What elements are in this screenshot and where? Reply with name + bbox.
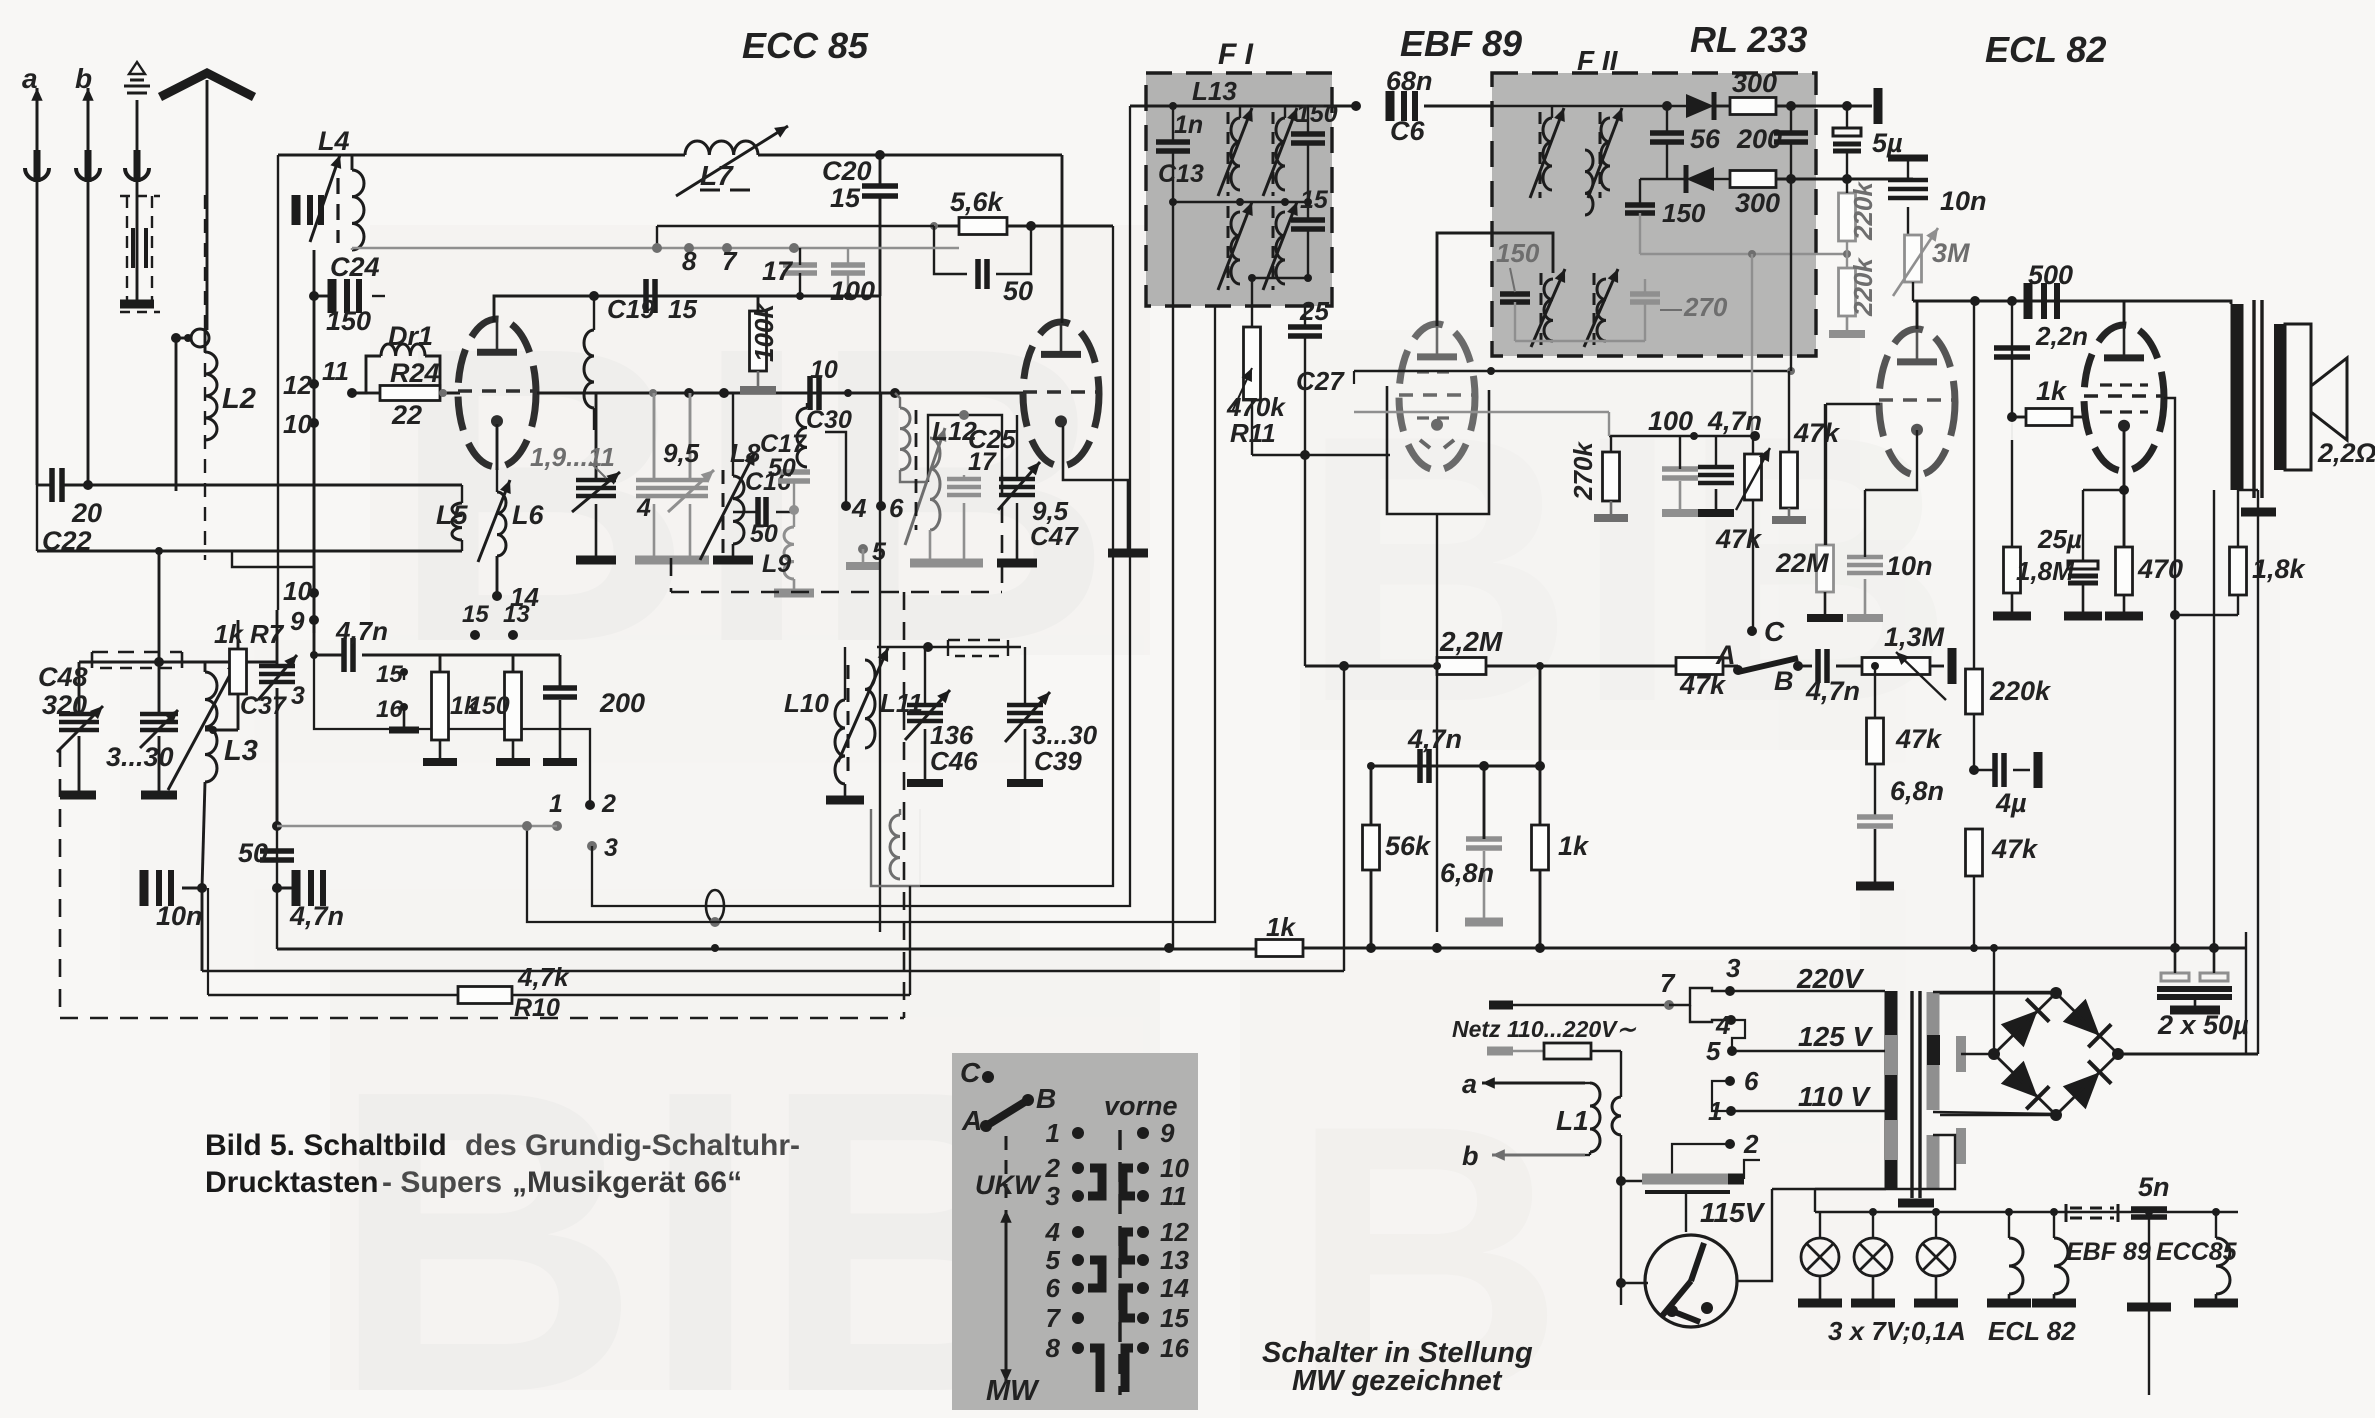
label pin5 bbox=[872, 538, 887, 566]
svg-text:L9: L9 bbox=[762, 550, 791, 578]
transformer primary winding bbox=[1885, 991, 1898, 1189]
trimmer capacitor C39 bbox=[1005, 647, 1050, 783]
wire secondary top to bridge bbox=[1933, 991, 2056, 993]
panel dashed link bbox=[1005, 1136, 1008, 1206]
label 1k pin9 bbox=[450, 692, 479, 720]
node ecc bus bbox=[2212, 1208, 2220, 1216]
pentode anode bbox=[2123, 301, 2126, 325]
label 47k right bbox=[1991, 834, 2039, 864]
label 10 C30 bbox=[810, 356, 838, 384]
node 1847 y179 bbox=[1842, 174, 1852, 184]
label pin8 bbox=[682, 246, 697, 276]
svg-text:a: a bbox=[1462, 1069, 1477, 1099]
resistor 47k af bbox=[1676, 658, 1738, 675]
pin 14 node bbox=[492, 591, 502, 601]
panel pin 12 bbox=[1137, 1217, 1189, 1247]
vertical 1791 inside FII bbox=[1790, 179, 1792, 371]
resistor 1k fb bbox=[1532, 666, 1549, 948]
gray wire y412 bbox=[1354, 411, 1609, 413]
resistor 1k decoupling bbox=[1256, 940, 1303, 957]
svg-text:10: 10 bbox=[283, 409, 312, 439]
mains riser lower bbox=[1620, 1135, 1622, 1305]
label C25 bbox=[968, 424, 1016, 454]
svg-text:ECL 82: ECL 82 bbox=[1985, 29, 2106, 70]
af wire y666 bbox=[1305, 665, 1437, 668]
svg-text:vorne: vorne bbox=[1104, 1091, 1178, 1121]
label 5µ bbox=[1872, 128, 1903, 158]
label L3 bbox=[224, 735, 258, 767]
node bus 1994 bbox=[1990, 944, 1998, 952]
node grid 689 bbox=[684, 388, 694, 398]
node 1305 y455 bbox=[1300, 450, 1310, 460]
svg-text:2: 2 bbox=[1045, 1153, 1061, 1183]
capacitor 25 C27 bbox=[1288, 306, 1322, 666]
line 150 pointer bbox=[1510, 268, 1515, 292]
bridge left node bbox=[1988, 1048, 2000, 1060]
svg-text:L8: L8 bbox=[730, 438, 761, 468]
wire tuner top node bbox=[79, 661, 277, 664]
resistor 1k pin9 bbox=[423, 655, 457, 762]
svg-text:F I: F I bbox=[1218, 38, 1254, 71]
node L12 box top bbox=[959, 410, 969, 420]
label 56 bbox=[1690, 124, 1721, 154]
label pin 3 bbox=[604, 834, 618, 862]
trimmer capacitor C37 bbox=[258, 610, 297, 824]
svg-text:56k: 56k bbox=[1385, 831, 1432, 861]
svg-text:220k: 220k bbox=[1848, 181, 1878, 241]
label R11 bbox=[1230, 418, 1276, 448]
svg-text:9: 9 bbox=[290, 606, 305, 636]
label 220k lower bbox=[1848, 257, 1878, 317]
svg-text:5: 5 bbox=[1706, 1036, 1721, 1066]
svg-text:5µ: 5µ bbox=[1872, 128, 1903, 158]
heater ECL82 bbox=[1987, 1212, 2031, 1303]
panel contact 12-13 bbox=[1123, 1232, 1135, 1260]
label C39 bbox=[1034, 746, 1082, 776]
label 2,2ohm bbox=[2317, 438, 2375, 468]
capacitor 15 FI bbox=[1291, 202, 1325, 278]
node bus 1437 bbox=[1432, 943, 1442, 953]
svg-text:15: 15 bbox=[462, 601, 489, 628]
pin6 node bbox=[1725, 1076, 1735, 1086]
heater EBF89 bbox=[2032, 1212, 2076, 1303]
terminal b socket hook bbox=[76, 168, 100, 485]
svg-text:6,8n: 6,8n bbox=[1440, 858, 1494, 888]
label 100 af bbox=[1648, 406, 1693, 436]
heater ECC85 bbox=[2194, 1212, 2238, 1303]
wire pin4 up bbox=[825, 432, 846, 506]
svg-text:25µ: 25µ bbox=[2037, 524, 2082, 554]
svg-text:C48: C48 bbox=[38, 662, 88, 692]
capacitor 200 bbox=[513, 655, 577, 762]
svg-text:C20: C20 bbox=[822, 156, 872, 186]
tube label ECL82 bbox=[1985, 29, 2106, 70]
resistor 1k grid bbox=[2012, 409, 2086, 426]
pin 7 node bbox=[722, 243, 732, 253]
af riser from bus B bbox=[1343, 666, 1345, 971]
label 4,7n tone bbox=[1805, 676, 1860, 706]
svg-text:9,5: 9,5 bbox=[663, 438, 700, 468]
screen drop bbox=[2174, 615, 2176, 973]
label C13 bbox=[1158, 160, 1204, 188]
svg-text:50: 50 bbox=[750, 520, 778, 548]
panel lever bbox=[980, 1094, 1034, 1132]
wire y371 left end bbox=[1353, 371, 1355, 384]
label 3 C37 bbox=[291, 682, 305, 710]
label C17 bbox=[760, 430, 807, 458]
resistor 300 upper bbox=[1730, 98, 1872, 115]
grid wire triode1 to triode2 bbox=[537, 392, 1024, 395]
capacitor 200 bbox=[1774, 106, 1808, 179]
FI mid node d bbox=[1304, 198, 1312, 206]
terminal bar right upper bbox=[1874, 88, 1883, 124]
capacitor C19 bbox=[646, 279, 655, 313]
FII lower gray bottom bbox=[1515, 340, 1645, 342]
label 470 bbox=[2137, 554, 2183, 584]
svg-text:13: 13 bbox=[503, 601, 530, 628]
label 47k screen bbox=[1793, 418, 1841, 448]
wire clock right bbox=[1736, 1189, 1772, 1281]
capacitor 5n heater bbox=[2127, 1209, 2171, 1395]
svg-text:3...30: 3...30 bbox=[106, 742, 174, 772]
earth socket hook bbox=[125, 168, 149, 302]
trimmer capacitor C46 bbox=[905, 647, 950, 783]
block label F II bbox=[1577, 45, 1619, 76]
speaker box bbox=[2285, 324, 2347, 470]
UKW tuner feed vertical bbox=[277, 155, 279, 610]
svg-text:MW: MW bbox=[986, 1375, 1040, 1407]
label 56k bbox=[1385, 831, 1432, 861]
svg-text:C30: C30 bbox=[806, 406, 852, 434]
svg-text:150: 150 bbox=[1296, 100, 1338, 128]
svg-text:6: 6 bbox=[889, 493, 904, 523]
resistor 100k bbox=[740, 296, 776, 390]
label C6 bbox=[1390, 116, 1425, 146]
svg-text:2,2n: 2,2n bbox=[2035, 321, 2088, 351]
FII avc gray wire bbox=[1640, 253, 1847, 255]
bridge diode SE bbox=[2063, 1061, 2111, 1109]
bracket 7-4 bbox=[1690, 1005, 1730, 1022]
caption line 1 bbox=[205, 1129, 800, 1162]
pin 4 node bbox=[841, 501, 851, 511]
svg-text:b: b bbox=[75, 63, 92, 94]
label 2x50µ bbox=[2157, 1010, 2249, 1040]
label pin 1 bbox=[549, 790, 563, 818]
transformer core bbox=[1912, 991, 1920, 1198]
svg-text:16: 16 bbox=[1160, 1333, 1189, 1363]
capacitor 100 af bbox=[1662, 436, 1698, 513]
pin5 ground bbox=[846, 549, 880, 566]
label 2,2M bbox=[1439, 626, 1503, 657]
label 17 C25 bbox=[968, 448, 997, 476]
label 100k bbox=[749, 303, 779, 362]
coupling coil right of C30 bbox=[895, 393, 928, 482]
pilot lamp 1 bbox=[1798, 1212, 1842, 1303]
svg-text:11: 11 bbox=[1160, 1181, 1187, 1211]
capacitor 6,8n tone bbox=[1856, 817, 1894, 886]
label 150 pin9 bbox=[468, 692, 510, 720]
pilot lamp 3 bbox=[1914, 1212, 1958, 1303]
FI mid node c bbox=[1281, 198, 1289, 206]
label a terminal bbox=[22, 63, 38, 94]
resistor 5,6k bbox=[930, 218, 1113, 235]
capacitor 50 bypass bbox=[934, 226, 1031, 289]
label C47 bbox=[1030, 521, 1079, 551]
svg-text:L3: L3 bbox=[224, 735, 258, 767]
variable capacitor C48 bbox=[57, 662, 103, 793]
svg-text:100: 100 bbox=[830, 276, 875, 306]
wire 5,6k node down bbox=[656, 226, 658, 248]
label 4,7n fb bbox=[1407, 724, 1462, 754]
FI mid node b bbox=[1236, 198, 1244, 206]
label R24 bbox=[390, 358, 440, 388]
wire y106 into FI bbox=[1130, 105, 1356, 108]
label 220V bbox=[1796, 963, 1865, 994]
svg-text:1k: 1k bbox=[1558, 831, 1590, 861]
label 4,7n lower left bbox=[289, 901, 344, 931]
label 1,8k bbox=[2252, 554, 2307, 584]
svg-text:300: 300 bbox=[1735, 188, 1780, 218]
svg-text:6,8n: 6,8n bbox=[1890, 776, 1944, 806]
gnd bus y615 bbox=[2175, 614, 2238, 616]
panel pin 16 bbox=[1137, 1333, 1189, 1363]
osc feedback wire 1 bbox=[920, 226, 1113, 886]
FI bottom wire bbox=[1252, 277, 1308, 279]
wire 1609 up bbox=[1608, 412, 1610, 436]
wire heater link bbox=[1772, 1188, 1886, 1190]
resistor 47k tone bbox=[1867, 718, 1884, 817]
label a mains bbox=[1462, 1069, 1477, 1099]
capacitor C20 bbox=[862, 155, 898, 196]
svg-text:2 x 50µ: 2 x 50µ bbox=[2157, 1010, 2249, 1040]
EBF89 anode lead bbox=[1437, 233, 1553, 326]
IF filter block F I shaded panel bbox=[1146, 73, 1332, 306]
label 16 bbox=[376, 696, 403, 723]
node bus 1169 bbox=[1164, 943, 1174, 953]
wire B to cap bbox=[1798, 665, 1812, 668]
capacitor 4,7n tone bbox=[1818, 649, 1862, 683]
bridge diode NW bbox=[2001, 999, 2049, 1047]
label C16 bbox=[745, 468, 792, 496]
resistor 300 lower bbox=[1730, 171, 1913, 188]
label 9,5 C47 bbox=[1032, 496, 1069, 526]
trimmer bracket dashed bbox=[92, 652, 182, 668]
block label F I bbox=[1218, 38, 1254, 71]
svg-text:12: 12 bbox=[283, 370, 312, 400]
node pin7 mains bbox=[1664, 1000, 1674, 1010]
wire secondary bottom to bridge bbox=[1933, 1112, 2056, 1114]
svg-text:10n: 10n bbox=[1940, 186, 1987, 216]
svg-text:C: C bbox=[960, 1057, 981, 1088]
label 1,3M bbox=[1884, 622, 1945, 652]
capacitor 4 osc bbox=[635, 393, 673, 560]
label 15 C19 bbox=[668, 294, 697, 324]
bridge right node bbox=[2112, 1048, 2124, 1060]
svg-text:R11: R11 bbox=[1230, 418, 1276, 448]
ECL82 anode bbox=[1916, 301, 1919, 329]
dashed bracket above C39 bbox=[948, 640, 1008, 656]
pin 6 node bbox=[876, 501, 886, 511]
panel contact 16 bbox=[1125, 1348, 1133, 1392]
label 300 lower bbox=[1735, 188, 1780, 218]
label 270k bbox=[1568, 441, 1598, 501]
label 6,8n tone bbox=[1890, 776, 1944, 806]
wire C6 to FII bbox=[1424, 105, 1492, 108]
svg-text:200: 200 bbox=[599, 688, 645, 718]
heater rail bbox=[1815, 1211, 2238, 1213]
label 47k af bbox=[1679, 670, 1727, 700]
FII lower coil B bbox=[1584, 269, 1618, 347]
svg-text:„Musikgerät 66“: „Musikgerät 66“ bbox=[512, 1166, 742, 1199]
label EBF89 heater bbox=[2066, 1238, 2151, 1266]
node 1791 y179 bbox=[1786, 174, 1796, 184]
transformer ground bbox=[1898, 1198, 1934, 1203]
node 1540 y766 bbox=[1535, 761, 1545, 771]
svg-text:1: 1 bbox=[1046, 1118, 1060, 1148]
label vorne bbox=[1104, 1091, 1178, 1121]
label C20 bbox=[822, 156, 872, 186]
capacitor 4,7n fb bbox=[1420, 749, 1429, 783]
capacitor 4,7n pin9 bbox=[310, 638, 440, 672]
resistor 220k lower bbox=[1829, 241, 1865, 334]
panel pin 4 bbox=[1045, 1217, 1084, 1247]
pin 5 node bbox=[858, 544, 868, 554]
arrow a mains bbox=[1482, 1077, 1585, 1088]
coil L10 bbox=[826, 647, 864, 800]
label 47k pot bbox=[1715, 524, 1763, 554]
label 47k tone bbox=[1895, 724, 1943, 754]
B+ bus right bbox=[1303, 947, 2246, 950]
node 1847 y106 bbox=[1842, 101, 1852, 111]
label C19 bbox=[607, 294, 655, 324]
label C switch bbox=[1764, 616, 1785, 647]
ECC85 t1 cathode lead bbox=[496, 424, 499, 470]
variable coil L4 bbox=[296, 155, 364, 250]
bus B bbox=[202, 970, 1344, 972]
panel pin 3 bbox=[1046, 1181, 1084, 1211]
svg-text:20: 20 bbox=[71, 498, 102, 528]
wire L3 bottom down bbox=[202, 782, 205, 888]
ground bar 16 bbox=[389, 707, 419, 730]
wire pin9 down bbox=[313, 593, 316, 655]
svg-text:270k: 270k bbox=[1568, 441, 1598, 501]
svg-text:1,8k: 1,8k bbox=[2252, 554, 2307, 584]
capacitor 150 FII bbox=[1625, 179, 1655, 254]
wire C20 down long2 bbox=[879, 296, 881, 932]
pentode screen bbox=[2164, 398, 2175, 615]
svg-text:L1: L1 bbox=[1556, 1105, 1589, 1136]
ECL82 grid wire bbox=[1826, 403, 1880, 405]
svg-text:7: 7 bbox=[1046, 1303, 1062, 1333]
wire L4 bottom to avc bus bbox=[351, 248, 353, 250]
svg-text:270: 270 bbox=[1683, 292, 1728, 322]
node 1540 y666 bbox=[1536, 662, 1544, 670]
label 9,5 osc bbox=[663, 438, 700, 468]
label ECL82 heater bbox=[1988, 1316, 2076, 1346]
svg-text:125 V: 125 V bbox=[1798, 1021, 1873, 1052]
svg-text:R7: R7 bbox=[250, 619, 285, 649]
svg-text:150: 150 bbox=[468, 692, 510, 720]
svg-text:C47: C47 bbox=[1030, 521, 1079, 551]
variable coil L8 bbox=[700, 393, 755, 560]
wire 220V bbox=[1730, 990, 1885, 992]
node lamp3 bus bbox=[1932, 1208, 1940, 1216]
node 1791 y371 bbox=[1787, 367, 1795, 375]
pin 9 node bbox=[309, 615, 319, 625]
pin2 node bbox=[1725, 1139, 1735, 1149]
svg-text:10: 10 bbox=[810, 356, 838, 384]
tube label EBF89 bbox=[1400, 23, 1522, 64]
label 150 FII bbox=[1662, 198, 1706, 228]
label 3M bbox=[1932, 238, 1970, 268]
svg-text:300: 300 bbox=[1732, 68, 1777, 98]
label C48 bbox=[38, 662, 88, 692]
node bus 2214 bbox=[2209, 943, 2219, 953]
node avc 794 bbox=[789, 243, 799, 253]
svg-text:4,7n: 4,7n bbox=[1407, 724, 1462, 754]
panel pin 9 bbox=[1137, 1118, 1175, 1148]
label 20 bbox=[71, 498, 102, 528]
panel contact 5-6 bbox=[1088, 1260, 1102, 1288]
label pin 2 bbox=[601, 790, 616, 818]
twist symbol bbox=[706, 890, 724, 927]
wire R11 C27 to EBF grid bbox=[1252, 454, 1390, 456]
pin 3 node bbox=[587, 841, 597, 851]
label C46 bbox=[930, 746, 978, 776]
node bus 715 bbox=[711, 944, 719, 952]
node cathode 490 bbox=[2119, 485, 2129, 495]
oscillator shield dashed outline bbox=[60, 475, 1002, 1018]
panel pin 7 bbox=[1046, 1303, 1084, 1333]
panel pin 1 bbox=[1046, 1118, 1084, 1148]
wire C37 to pin1 gray bbox=[277, 825, 557, 827]
label 4 osc bbox=[636, 494, 651, 522]
svg-text:F II: F II bbox=[1577, 45, 1619, 76]
label 5n bbox=[2138, 1172, 2170, 1202]
svg-text:12: 12 bbox=[1160, 1217, 1189, 1247]
svg-text:3: 3 bbox=[604, 834, 618, 862]
label 2,2n bbox=[2035, 321, 2088, 351]
label 1k fb bbox=[1558, 831, 1590, 861]
choke Dr1 with R24 bbox=[352, 344, 460, 401]
svg-text:ECC 85: ECC 85 bbox=[742, 25, 869, 66]
svg-text:50: 50 bbox=[768, 454, 796, 482]
node 1694 y436 bbox=[1690, 432, 1698, 440]
capacitor 1n C13 bbox=[1156, 102, 1190, 151]
svg-text:15: 15 bbox=[830, 183, 861, 213]
electrolytic 2x50µ A bbox=[2161, 948, 2189, 981]
panel pin 13 bbox=[1137, 1245, 1189, 1275]
C48 ground bar bbox=[60, 791, 96, 800]
wire left riser bus B bbox=[201, 888, 204, 971]
svg-text:15: 15 bbox=[1300, 186, 1329, 214]
wire pin9 row bbox=[440, 654, 513, 657]
terminal a arrow bbox=[31, 88, 42, 182]
svg-text:1: 1 bbox=[549, 790, 563, 818]
svg-text:10: 10 bbox=[283, 576, 312, 606]
resistor 220k upper bbox=[1839, 179, 1856, 241]
panel pin 15 bbox=[1137, 1303, 1189, 1333]
label 1,9...11 bbox=[530, 442, 615, 472]
wire top bus L7 to tube2 bbox=[758, 154, 1062, 157]
pin3 node bbox=[1725, 986, 1735, 996]
label 200 bbox=[599, 688, 645, 718]
wire pin10 to pin10b bbox=[313, 423, 316, 593]
svg-text:4,7n: 4,7n bbox=[335, 616, 388, 646]
mains terminal lower bbox=[1487, 1047, 1544, 1056]
mains fuse riser bbox=[1620, 1051, 1622, 1097]
FII secondary coil bbox=[1588, 108, 1623, 198]
